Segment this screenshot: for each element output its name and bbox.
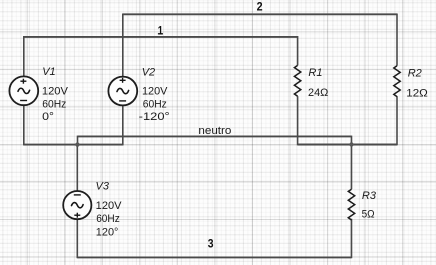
svg-text:24Ω: 24Ω	[308, 87, 328, 99]
svg-text:V1: V1	[42, 66, 55, 78]
svg-text:2: 2	[257, 2, 263, 14]
svg-text:5Ω: 5Ω	[362, 208, 375, 220]
svg-text:V3: V3	[96, 180, 110, 192]
svg-text:R1: R1	[308, 67, 322, 79]
svg-text:V2: V2	[142, 66, 155, 78]
svg-text:-120°: -120°	[139, 111, 170, 123]
svg-text:12Ω: 12Ω	[406, 87, 428, 99]
svg-text:1: 1	[158, 25, 164, 37]
svg-text:120V: 120V	[142, 86, 168, 98]
svg-text:60Hz: 60Hz	[96, 213, 120, 225]
svg-text:3: 3	[208, 239, 214, 251]
svg-text:60Hz: 60Hz	[42, 99, 66, 111]
svg-text:R2: R2	[408, 68, 422, 80]
svg-text:60Hz: 60Hz	[143, 99, 167, 111]
svg-text:120V: 120V	[96, 200, 123, 212]
svg-text:neutro: neutro	[198, 125, 231, 137]
svg-text:120V: 120V	[42, 86, 69, 98]
svg-text:0°: 0°	[42, 111, 54, 123]
svg-text:R3: R3	[362, 190, 377, 202]
svg-text:120°: 120°	[96, 226, 119, 238]
